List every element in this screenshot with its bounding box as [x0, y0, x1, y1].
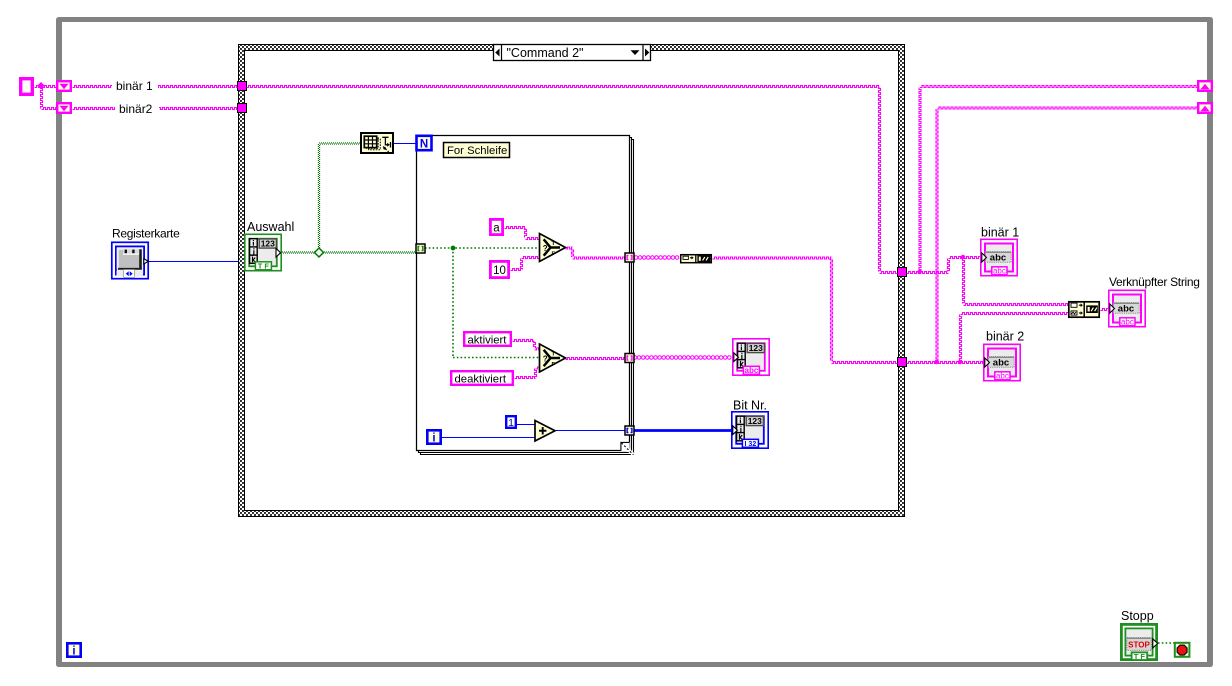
svg-text:123: 123 [748, 416, 762, 426]
svg-text:1: 1 [508, 417, 514, 429]
svg-text:abc: abc [1118, 304, 1134, 315]
for loop tunnel boolean in [416, 244, 425, 253]
svg-text:N: N [420, 138, 428, 150]
svg-text:abc: abc [1121, 317, 1134, 326]
svg-text:abc: abc [993, 358, 1009, 369]
svg-text:T: T [552, 241, 556, 247]
case tunnel binär2 in [238, 104, 247, 113]
shift register right 1 [1198, 81, 1212, 91]
for loop tunnel string out 2 [625, 354, 634, 363]
wire array size to N [393, 143, 416, 145]
select node 1 [540, 234, 566, 262]
svg-text:I 32: I 32 [745, 441, 757, 448]
svg-text:Stopp: Stopp [1121, 609, 1154, 623]
svg-text:T: T [552, 351, 556, 357]
shift register left 2 [57, 103, 71, 113]
Verknüpfter String indicator [1109, 290, 1145, 326]
svg-text:Auswahl: Auswahl [247, 220, 294, 234]
svg-text:Bit Nr.: Bit Nr. [733, 399, 767, 413]
svg-text:Registerkarte: Registerkarte [112, 227, 180, 241]
svg-text:abc: abc [993, 266, 1006, 275]
wire concat output [1101, 309, 1109, 311]
wire binär 1 left [73, 86, 238, 88]
svg-text:123: 123 [749, 343, 763, 353]
svg-text:deaktiviert: deaktiviert [455, 373, 507, 385]
for loop border [417, 136, 634, 456]
case selector label "Command 2" [494, 45, 651, 61]
svg-text:F: F [552, 252, 556, 258]
shift register right 2 [1198, 103, 1212, 113]
svg-text:abc: abc [745, 366, 759, 375]
wire array out of for loop tunnel2 [633, 356, 637, 360]
constant 1 [506, 416, 516, 429]
svg-text:abc: abc [996, 371, 1009, 380]
case tunnel binär1 in [238, 82, 247, 91]
svg-text:10: 10 [493, 265, 506, 277]
svg-text:F: F [552, 362, 556, 368]
case structure border [238, 44, 905, 517]
svg-text:"Command 2": "Command 2" [507, 46, 584, 60]
wire 10 to select1 [511, 269, 522, 271]
svg-text:123: 123 [261, 238, 275, 248]
wire array out of for loop tunnel1 [634, 256, 638, 260]
binär 1 indicator [981, 239, 1017, 275]
svg-text:T F: T F [1134, 652, 1146, 661]
for loop iteration terminal i [427, 430, 440, 444]
wire select1 output chain [566, 247, 573, 249]
add node [535, 421, 555, 442]
svg-text:binär 1: binär 1 [116, 79, 153, 93]
wire 1 to add [517, 424, 535, 426]
wire select2 output [566, 358, 626, 360]
shift register left 1 [57, 81, 71, 91]
select node 2 [540, 344, 566, 372]
Bit Nr. indicator [732, 412, 768, 448]
while loop condition terminal [1175, 643, 1190, 657]
binär 2 indicator [984, 344, 1020, 380]
svg-text:For Schleife: For Schleife [447, 145, 507, 157]
for loop tunnel string out 1 [625, 253, 634, 262]
svg-text:T F: T F [258, 261, 270, 270]
svg-text:?: ? [543, 354, 548, 363]
while loop iteration terminal i [67, 643, 80, 657]
Stopp boolean control [1121, 624, 1157, 661]
case tunnel binär2 out [898, 358, 907, 367]
array to spreadsheet string node [681, 254, 712, 263]
wire add output [555, 430, 625, 432]
Auswahl control terminal [245, 234, 281, 270]
wire binär2 left [73, 108, 238, 110]
label binär2 left [115, 102, 159, 117]
svg-text:Verknüpfter String: Verknüpfter String [1109, 275, 1200, 289]
case tunnel binär1 out [898, 268, 907, 277]
svg-text:STOP: STOP [1128, 640, 1150, 649]
wire a to select1 [505, 227, 526, 229]
wire i to add [442, 437, 535, 439]
for loop count terminal N [417, 136, 432, 151]
wire string control to shift registers [35, 86, 57, 88]
wire Registerkarte blue [149, 261, 238, 263]
constant 10 [490, 261, 508, 277]
constant aktiviert [464, 332, 511, 346]
Registerkarte terminal [112, 242, 148, 278]
svg-text:i: i [432, 432, 435, 444]
wire spreadsheet string to binär2 out tunnel [713, 257, 832, 259]
wire binär 2 out of case [907, 362, 984, 364]
for loop folded corner [621, 442, 630, 451]
string array indicator (unlabeled) [733, 339, 769, 375]
junction diamond green [315, 248, 324, 257]
wire aktiviert to select2 [513, 340, 535, 342]
junction diamond [38, 82, 45, 89]
svg-text:abc: abc [990, 253, 1006, 264]
constant deaktiviert [451, 371, 513, 385]
wire stop to condition [1158, 642, 1174, 644]
wire deaktiviert to select2 [515, 377, 536, 379]
constant a [490, 219, 502, 234]
svg-text:binär 2: binär 2 [986, 330, 1024, 344]
svg-text:a: a [493, 223, 500, 235]
wire int array to Bit Nr. [634, 429, 731, 432]
svg-text:aktiviert: aktiviert [468, 334, 508, 346]
label binär 1 left [112, 78, 158, 93]
array size node [361, 133, 393, 153]
svg-text:binär2: binär2 [119, 102, 153, 116]
wire boolean scalar in for loop [425, 247, 539, 249]
svg-text:i: i [72, 645, 75, 657]
svg-text:?: ? [543, 244, 548, 253]
wire binär 1 out of case to shift register and indicator [907, 272, 949, 274]
wire Auswahl boolean array [282, 251, 416, 253]
for loop tunnel int out [625, 426, 634, 435]
for loop label "For Schleife" [444, 143, 510, 158]
svg-text:binär 1: binär 1 [981, 226, 1019, 240]
wire binär 1 inside case [247, 86, 880, 88]
string control (far left) [21, 79, 33, 95]
concatenate strings node [1069, 302, 1099, 318]
